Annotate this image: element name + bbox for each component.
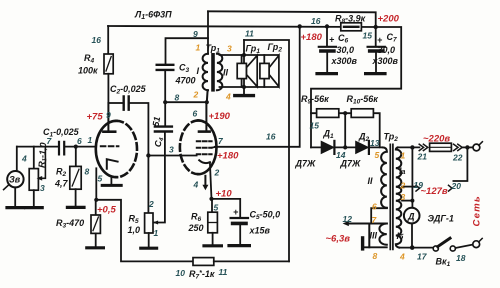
svg-text:+0,5: +0,5	[97, 205, 116, 216]
node C1-R2-grid	[74, 145, 78, 149]
svg-text:1: 1	[196, 43, 201, 53]
svg-text:4,7: 4,7	[54, 179, 69, 189]
svg-text:II: II	[368, 176, 374, 186]
svg-text:1: 1	[401, 151, 406, 161]
node +200 junction	[374, 25, 378, 29]
svg-text:3: 3	[401, 192, 406, 202]
capacitor C4	[155, 127, 172, 132]
wire C5 branch	[212, 199, 241, 217]
svg-text:18: 18	[456, 253, 466, 263]
wire winding II bottom tap6	[371, 208, 387, 223]
svg-text:12: 12	[343, 214, 353, 224]
pentode screen stub to pin7	[212, 146, 216, 149]
svg-text:х300в: х300в	[331, 56, 358, 66]
wire heater tap 12 arrow	[343, 221, 387, 226]
node speaker top	[242, 53, 246, 57]
transformer Tp2 core	[390, 144, 393, 249]
svg-text:2: 2	[214, 168, 220, 178]
wire feedback riser	[244, 40, 289, 261]
capacitor C1	[59, 142, 64, 155]
capacitor C7	[368, 47, 385, 51]
capacitor C6	[319, 47, 336, 51]
resistor R7	[193, 258, 214, 266]
node speaker bottom	[242, 85, 246, 89]
svg-text:16: 16	[266, 132, 276, 142]
node R9 R10 mid	[343, 111, 347, 115]
svg-text:+75: +75	[87, 112, 104, 123]
svg-text:6: 6	[77, 136, 82, 146]
svg-text:4: 4	[21, 154, 27, 164]
wire speaker ground stem	[243, 87, 245, 94]
red voltage labels	[87, 14, 483, 245]
svg-text:3: 3	[169, 145, 174, 155]
svg-text:11: 11	[219, 267, 228, 277]
input jack Зв	[7, 171, 23, 187]
node grid wire junction	[146, 153, 150, 157]
svg-text:х300в: х300в	[372, 56, 399, 66]
wire jack to ground	[14, 187, 16, 206]
wire pentode cathode drop	[210, 162, 212, 199]
input jack slash	[4, 185, 9, 190]
fuse Pr1 body	[430, 143, 452, 151]
transformer Tp1 secondary winding II	[217, 54, 222, 90]
svg-text:15: 15	[363, 31, 373, 41]
node fuse left	[410, 145, 414, 149]
svg-text:5: 5	[98, 174, 103, 184]
speaker Gr1	[237, 55, 257, 87]
svg-text:С2-0,025: С2-0,025	[110, 84, 147, 96]
svg-text:Зв: Зв	[9, 175, 21, 185]
terminal mains top	[473, 142, 482, 151]
svg-text:+: +	[233, 207, 239, 217]
svg-text:51: 51	[151, 116, 163, 128]
wire R6 stem	[211, 199, 213, 212]
diode D1	[321, 141, 334, 154]
svg-text:+200: +200	[378, 14, 400, 25]
wire Tp2 top to fuse	[398, 146, 420, 148]
svg-text:11: 11	[245, 29, 254, 39]
svg-text:4700: 4700	[175, 76, 196, 86]
svg-text:ЭДГ-1: ЭДГ-1	[428, 214, 454, 224]
svg-text:30,0: 30,0	[337, 45, 355, 55]
fuse Pr1 chevrons left	[419, 144, 428, 150]
wire anode branch to Tp1 bottom	[165, 101, 207, 103]
resistor R6	[208, 212, 218, 233]
node C6 rail	[325, 24, 329, 28]
wire speaker top rail	[220, 54, 279, 56]
wire motor bus	[411, 147, 413, 247]
svg-text:9: 9	[193, 29, 198, 39]
node fuse right	[465, 145, 469, 149]
switch Vk1 pivot	[433, 246, 438, 251]
wire speaker bottom rail	[220, 86, 279, 88]
svg-text:17: 17	[417, 252, 428, 262]
wire R7 to riser	[214, 260, 289, 262]
wire 127v link chevron	[416, 185, 420, 191]
node cathode junction	[94, 198, 98, 202]
svg-text:30,0: 30,0	[378, 45, 396, 55]
transformer Tp1 core	[211, 53, 215, 92]
node net16 rail	[298, 24, 302, 28]
svg-text:R8-3,9к: R8-3,9к	[335, 14, 366, 26]
wire screen pin7 net16	[215, 26, 300, 146]
wire C6 to ground	[326, 53, 328, 72]
wire R1 top	[33, 147, 35, 169]
ground under speakers	[235, 94, 254, 97]
svg-text:R3-470: R3-470	[56, 218, 84, 230]
wire tap2 127v	[402, 186, 415, 188]
svg-text:2: 2	[193, 90, 199, 100]
svg-text:х15в: х15в	[249, 226, 271, 236]
wire C7 riser	[375, 27, 377, 46]
svg-text:R7*-1к: R7*-1к	[189, 269, 215, 281]
transformer Tp2 winding I	[396, 147, 402, 247]
svg-text:3: 3	[40, 183, 45, 193]
svg-text:С5-50,0: С5-50,0	[250, 210, 281, 222]
svg-text:+180: +180	[301, 32, 323, 43]
ground under C5	[229, 244, 249, 247]
ground under C7	[366, 72, 385, 75]
svg-text:Сеть: Сеть	[472, 195, 483, 226]
pentode V1b envelope	[198, 120, 216, 174]
svg-text:5: 5	[214, 203, 219, 213]
potentiometer R5	[145, 213, 153, 233]
wire 20 stub	[453, 147, 467, 181]
svg-text:~6,3в: ~6,3в	[326, 234, 351, 245]
wire C1 to grid	[65, 146, 95, 148]
wire Tp2 bottom to switch	[399, 247, 433, 249]
wire R6 to ground	[212, 233, 214, 244]
wire R2 to ground	[75, 189, 77, 206]
pentode grid dashes	[197, 141, 212, 154]
resistor R8	[341, 23, 362, 31]
wire tap3	[402, 200, 412, 202]
motor EDG-1	[404, 208, 420, 224]
wire net16 top rail	[108, 26, 376, 27]
wire diode row	[311, 146, 383, 148]
transformer Tp2 winding II	[381, 147, 387, 207]
svg-text:4: 4	[399, 252, 405, 262]
node cathode R6 C5	[209, 197, 213, 201]
svg-text:+: +	[329, 35, 335, 45]
wire Tp1 primary bottom to pentode anode	[206, 90, 207, 130]
wire R5 grid node riser	[153, 133, 165, 223]
resistor R3	[91, 215, 100, 233]
wire C2 to R5 riser	[130, 103, 149, 213]
wire feedback cathode to R7	[96, 200, 193, 262]
wire R4 riser from rail	[107, 26, 109, 54]
svg-text:6: 6	[372, 202, 377, 212]
wire fuse to terminal	[462, 146, 473, 148]
triode V1a grid dashes	[101, 145, 119, 147]
capacitor C2	[124, 97, 129, 110]
wire pentode grid	[148, 155, 196, 157]
svg-text:R9-56к: R9-56к	[301, 94, 329, 106]
resistor R4	[104, 54, 113, 74]
svg-text:21: 21	[417, 152, 428, 162]
svg-text:+10: +10	[216, 189, 233, 200]
resistor R9	[317, 109, 339, 118]
svg-text:II: II	[223, 68, 229, 78]
resistor R10	[351, 109, 373, 118]
svg-text:+190: +190	[209, 111, 231, 122]
svg-text:III: III	[370, 231, 378, 241]
transformer Tp1 primary winding I	[203, 54, 208, 90]
capacitor C3	[157, 65, 174, 70]
svg-text:5: 5	[375, 150, 380, 160]
wire R2 top	[75, 147, 77, 167]
wire 127v right chevron	[449, 185, 453, 191]
potentiometer R1	[29, 147, 45, 191]
wire triode anode stem	[107, 103, 109, 131]
wire anode node to C2	[108, 102, 122, 104]
svg-text:~127в: ~127в	[421, 186, 448, 197]
wire R4 to anode node	[107, 74, 109, 103]
svg-text:9: 9	[106, 110, 111, 120]
svg-text:Д7Ж: Д7Ж	[295, 159, 317, 169]
wire R3 to ground	[95, 233, 97, 246]
svg-text:3: 3	[227, 44, 232, 54]
triode V1a cathode	[107, 159, 118, 169]
wire net15 +200 top link	[208, 11, 376, 27]
triode V1a envelope	[96, 121, 117, 177]
ground under R3	[87, 246, 104, 249]
svg-text:20: 20	[451, 181, 462, 191]
wire C3 top to Tp1 top	[166, 38, 209, 64]
wire triode cathode drop	[95, 168, 97, 200]
node tap3 bus	[410, 199, 414, 203]
svg-text:16: 16	[311, 16, 321, 26]
svg-text:8: 8	[373, 251, 378, 261]
svg-text:+: +	[377, 35, 383, 45]
wire R9 R10 row	[311, 113, 380, 147]
svg-text:Л1-6Ф3П: Л1-6Ф3П	[134, 10, 172, 22]
svg-text:22: 22	[452, 153, 463, 163]
wire Tp1 primary riser	[207, 11, 209, 54]
svg-text:100к: 100к	[78, 66, 98, 76]
fuse Pr1 chevrons right	[454, 144, 463, 150]
svg-text:Д7Ж: Д7Ж	[340, 159, 362, 169]
svg-text:6: 6	[193, 109, 198, 119]
node Tp1 bottom junction	[205, 100, 209, 104]
svg-text:16: 16	[92, 35, 102, 45]
wire R1 to ground	[33, 190, 35, 206]
wire C3 to C4	[164, 71, 166, 125]
wire winding III ground stem	[365, 246, 387, 248]
pentode anode plate bar	[199, 130, 210, 133]
svg-text:1: 1	[154, 228, 159, 238]
wire C5 to ground	[239, 225, 241, 243]
switch Vk1 contact	[450, 246, 455, 251]
svg-text:10: 10	[176, 268, 186, 278]
wire node14 riser	[344, 113, 346, 147]
wire switch to terminal	[455, 245, 473, 248]
orange terminal numbers	[193, 43, 406, 262]
triode V1a plate bar	[103, 130, 115, 133]
svg-text:13: 13	[370, 138, 380, 148]
capacitor C5	[231, 218, 248, 223]
speaker Gr2	[260, 55, 279, 87]
wire input line to C1	[17, 146, 58, 148]
svg-text:4: 4	[193, 180, 199, 190]
terminal mains bottom	[473, 238, 482, 247]
pentode cathode	[199, 160, 210, 163]
svg-text:Д: Д	[407, 212, 415, 222]
svg-text:+180: +180	[217, 151, 239, 162]
svg-text:1,0: 1,0	[128, 225, 141, 235]
wire R5 to ground	[148, 233, 150, 246]
ground winding III	[361, 236, 364, 250]
switch Vk1 blade	[438, 238, 450, 246]
ground pin5 bar	[102, 184, 121, 187]
svg-text:2: 2	[148, 199, 154, 209]
svg-text:R10-56к: R10-56к	[347, 94, 379, 106]
ground under jack	[7, 206, 24, 209]
R5 wiper arrowhead	[153, 221, 158, 225]
wire C6 riser	[326, 27, 328, 46]
diode D2	[356, 141, 369, 154]
node 14	[343, 145, 347, 149]
ground under R1	[26, 206, 43, 209]
svg-text:4: 4	[225, 92, 231, 102]
ground under C6	[317, 72, 336, 75]
node motor bottom	[410, 245, 415, 250]
pentode heater arrow pin4	[202, 176, 208, 190]
wire triode pin5 stem	[110, 176, 112, 183]
resistor R2	[70, 166, 81, 189]
svg-text:15: 15	[310, 121, 320, 131]
svg-text:1: 1	[88, 135, 93, 145]
ground under R2	[67, 206, 84, 209]
transformer Tp2 winding III	[369, 224, 387, 248]
svg-text:250: 250	[188, 223, 204, 233]
ground under R5	[141, 247, 157, 250]
wire C7 to ground	[375, 53, 377, 72]
wire R3 stem	[95, 200, 97, 215]
svg-text:2: 2	[400, 181, 406, 191]
svg-text:8: 8	[175, 93, 180, 103]
svg-text:14: 14	[336, 150, 346, 160]
wire input jack drop	[16, 147, 18, 171]
svg-text:8: 8	[85, 167, 90, 177]
wire speaker riser net11	[243, 40, 245, 87]
svg-text:~220в: ~220в	[423, 134, 450, 145]
ground under R6	[204, 244, 221, 247]
node C3C4 anode branch	[163, 100, 167, 104]
wire +200 to rectifier	[311, 27, 401, 147]
